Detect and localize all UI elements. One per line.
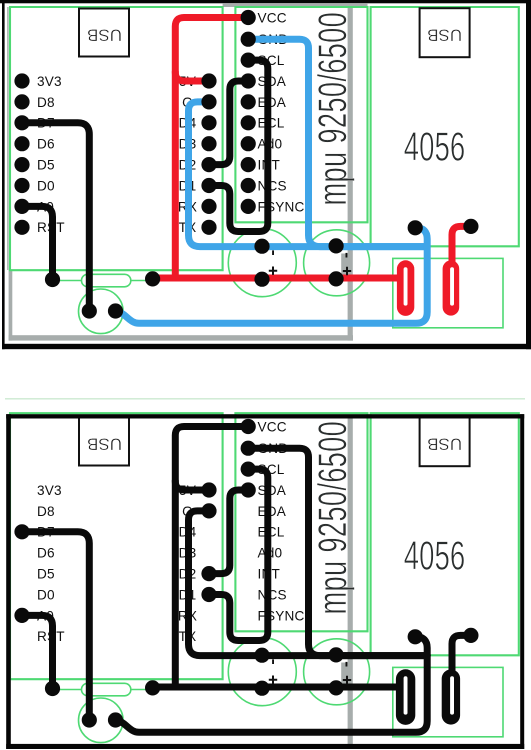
frame border top panel [0, 0, 531, 349]
svg-text:NCS: NCS [258, 178, 287, 193]
wire 5V branch P1 [175, 72, 209, 81]
jumper body stadium outline P2 [82, 683, 131, 696]
battery B2 plus mark P2 [343, 676, 351, 684]
pin labels middle column P2 [178, 483, 197, 644]
pin labels left column P2 [37, 483, 65, 644]
capacitor / cell slot B P2 [442, 669, 460, 724]
USB connector left module P1 [79, 9, 129, 57]
PCB outline module ESP board (green rect) P2 [10, 413, 223, 679]
pad 3V3 P1 [14, 73, 29, 88]
svg-text:SDA: SDA [258, 483, 287, 498]
pad B2+ P2 [329, 680, 344, 695]
capacitor / cell slot B P1 [443, 260, 460, 315]
wire SDA to D2 P1 [209, 81, 248, 165]
board edge left thin gray (D1 mini) P1 [7, 7, 9, 270]
pad JL P1 [45, 272, 60, 287]
wire A0 down P1 [22, 206, 53, 279]
wire pad B to capsule B P2 [452, 635, 471, 681]
pad G P1 [201, 94, 216, 109]
USB connector 4056 module P1 [420, 8, 470, 57]
pad B1+ P2 [254, 681, 269, 696]
capacitor / cell slot A P1 [397, 260, 414, 316]
PCB outline module 4056 board (green rect) P2 [371, 413, 519, 655]
svg-text:D0: D0 [37, 178, 55, 193]
USB connector left module P2 [79, 418, 129, 466]
svg-text:3V3: 3V3 [37, 74, 62, 89]
wire positive rail horizontal P2 [153, 684, 399, 691]
pad 5V P2 [201, 482, 216, 497]
board edge top gray strip P1 [223, 4, 368, 7]
svg-text:EDA: EDA [258, 504, 287, 519]
wire positive rail horizontal P1 [153, 275, 399, 282]
pad Ad0 P1 [241, 136, 256, 151]
battery B2 minus mark P1 [346, 253, 348, 258]
battery B2 outline circle P1 [304, 230, 370, 296]
jumper link wire (green) P1 [53, 280, 153, 282]
pad B2+ P1 [329, 271, 344, 286]
pad SCL P1 [241, 53, 256, 68]
wire SDA to D2 P2 [209, 490, 248, 574]
pad D7 P2 [14, 524, 29, 539]
pad B1- P1 [254, 239, 269, 254]
pad OUTB P2 [463, 628, 478, 643]
svg-text:D8: D8 [37, 95, 55, 110]
pad ECL P1 [241, 115, 256, 130]
wire A0 down P2 [22, 615, 53, 688]
pad RX P1 [201, 199, 216, 214]
pad B2- P2 [329, 647, 344, 662]
wire SCL to D1 P1 [209, 60, 268, 231]
pad B1- P2 [254, 648, 269, 663]
wire 5V branch P2 [175, 481, 209, 490]
svg-text:D5: D5 [37, 158, 55, 173]
pad VCC P2 [241, 419, 256, 434]
separator faint line [5, 398, 525, 400]
battery B2 clip body gray P2 [341, 663, 351, 685]
pad SDA P1 [241, 73, 256, 88]
svg-text:USB: USB [87, 434, 122, 453]
pad D0 P1 [14, 178, 29, 193]
svg-text:4056: 4056 [404, 535, 465, 579]
pad GND P1 [241, 32, 256, 47]
PCB outline module MPU board (green rect) P2 [235, 413, 367, 631]
USB connector 4056 module P2 [420, 417, 470, 466]
svg-text:NCS: NCS [258, 587, 287, 602]
pad SCL P2 [241, 462, 256, 477]
wire D7 down P1 [22, 123, 89, 311]
pad INT P1 [241, 157, 256, 172]
jumper link wire (green) P2 [53, 689, 153, 691]
pad TX P1 [201, 220, 216, 235]
svg-text:EDA: EDA [258, 95, 287, 110]
battery B2 minus mark P2 [346, 662, 348, 667]
pad D5 P1 [14, 157, 29, 172]
svg-text:VCC: VCC [258, 419, 287, 434]
pad OUTA P2 [408, 629, 423, 644]
PCB outline module MPU board (green rect) P1 [235, 7, 367, 222]
svg-text:VCC: VCC [258, 10, 287, 25]
pad JL P2 [45, 681, 60, 696]
pad JR P1 [145, 271, 160, 286]
MPU module connector bar P1 [348, 4, 353, 340]
battery B1 plus mark P2 [269, 676, 277, 684]
battery B2 plus mark P1 [343, 267, 351, 275]
svg-text:USB: USB [427, 435, 462, 454]
battery B1 plus mark P1 [269, 267, 277, 275]
pad B2- P1 [329, 238, 344, 253]
connector circle bottom-left P2 [79, 698, 124, 743]
pad D8 P1 [14, 94, 29, 109]
pad RST P1 [14, 220, 29, 235]
svg-text:D8: D8 [37, 504, 55, 519]
pad OUTA P1 [408, 220, 423, 235]
frame border bottom panel [6, 414, 524, 749]
jumper body stadium outline P1 [82, 274, 131, 287]
svg-text:3V3: 3V3 [37, 483, 62, 498]
battery B1 minus mark P2 [272, 659, 274, 664]
pad G P2 [201, 503, 216, 518]
pad SDA P2 [241, 482, 256, 497]
battery B1 outline circle P1 [228, 229, 296, 297]
pin labels left column P1 [37, 74, 65, 235]
pad FSYNC P1 [241, 199, 256, 214]
svg-text:USB: USB [427, 26, 462, 45]
battery connector outline (green rect) P1 [393, 258, 503, 327]
pad D7 P1 [14, 115, 29, 130]
pad VCC P1 [241, 10, 256, 25]
pad C1 P2 [82, 712, 97, 727]
svg-text:mpu 9250/6500: mpu 9250/6500 [311, 421, 355, 615]
pad A0 P1 [14, 199, 29, 214]
pad C2 P2 [108, 712, 123, 727]
connector circle bottom-left P1 [79, 289, 124, 334]
pad D3 P1 [201, 136, 216, 151]
battery B1 outline circle P2 [228, 638, 296, 706]
wire SCL to D1 P2 [209, 469, 268, 640]
svg-text:D0: D0 [37, 587, 55, 602]
PCB outline module 4056 board (green rect) P1 [371, 7, 519, 246]
pad C2 P1 [108, 303, 123, 318]
pad D2 P1 [201, 157, 216, 172]
wire battery out to pad A P1 [116, 228, 428, 323]
pad D2 P2 [201, 566, 216, 581]
pin labels right column P2 [258, 419, 305, 623]
svg-text:SDA: SDA [258, 74, 287, 89]
wire GND to battery minus P2 [248, 448, 427, 655]
wire D7 down P2 [22, 532, 89, 720]
battery B1 minus mark P1 [272, 250, 274, 255]
svg-text:D6: D6 [37, 137, 55, 152]
svg-text:4056: 4056 [404, 126, 465, 170]
pad D6 P1 [14, 136, 29, 151]
wire G to battery minus P2 [189, 511, 428, 656]
pad D4 P1 [201, 115, 216, 130]
PCB outline module ESP board (green rect) P1 [10, 7, 223, 270]
battery B2 clip body gray P1 [341, 254, 351, 276]
pad D1 P2 [201, 587, 216, 602]
svg-text:D5: D5 [37, 567, 55, 582]
pad EDA P1 [241, 94, 256, 109]
pin labels middle column P1 [178, 74, 197, 235]
svg-text:USB: USB [87, 25, 122, 44]
pin labels right column P1 [258, 10, 305, 214]
pad JR P2 [145, 680, 160, 695]
MPU module connector bar P2 [348, 417, 353, 746]
wire pad B to capsule B P1 [452, 226, 471, 272]
wire battery out to pad A P2 [116, 637, 428, 733]
battery B2 outline circle P2 [304, 639, 370, 705]
wire GND to battery minus P1 [248, 39, 427, 246]
svg-text:D6: D6 [37, 546, 55, 561]
pad GND P2 [241, 441, 256, 456]
wire G to battery minus P1 [189, 102, 428, 247]
capacitor / cell slot A P2 [396, 669, 415, 725]
svg-text:mpu 9250/6500: mpu 9250/6500 [311, 12, 355, 206]
pad B1+ P1 [254, 272, 269, 287]
pad 5V P1 [201, 73, 216, 88]
pad D1 P1 [201, 178, 216, 193]
board edge lower-left gray P1 [9, 270, 13, 341]
pad OUTB P1 [463, 219, 478, 234]
pad NCS P1 [241, 178, 256, 193]
pad C1 P1 [82, 303, 97, 318]
wire VCC to 5V rail (vertical) P2 [175, 427, 248, 688]
battery connector outline (green rect) P2 [393, 667, 503, 736]
pad A0 P2 [14, 608, 29, 623]
wire VCC to 5V rail (vertical) P1 [175, 18, 248, 279]
board edge bottom gray P1 [9, 335, 353, 340]
